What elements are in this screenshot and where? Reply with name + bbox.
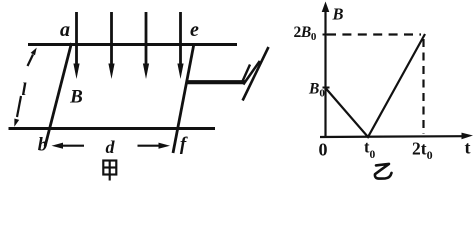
tick 2B0 [323, 34, 330, 36]
dashed vertical at 2t0 [422, 39, 424, 134]
graph B axis [322, 2, 330, 138]
field arrow 3 [143, 12, 149, 79]
svg-text:a: a [60, 19, 70, 41]
graph line B(t) [326, 34, 426, 137]
thick wire to external circuit [187, 80, 246, 84]
graph t axis [320, 133, 473, 140]
field arrow 2 [108, 12, 114, 79]
dimension l lower arrow [14, 96, 21, 127]
svg-text:t: t [465, 138, 471, 158]
field arrow 4 [177, 12, 183, 79]
break slash middle [243, 61, 259, 85]
top rail (wire) [28, 43, 237, 46]
dimension d right arrow [138, 143, 171, 149]
conducting bar ab [45, 43, 72, 147]
caption 乙 (drawn glyph) [375, 164, 392, 179]
svg-text:B: B [332, 5, 344, 24]
conducting bar ef [173, 44, 194, 154]
dimension l upper arrow [28, 48, 37, 66]
caption 甲 (drawn glyph) [103, 161, 116, 181]
field arrow 1 [73, 12, 79, 79]
svg-text:d: d [106, 137, 116, 157]
svg-text:b: b [38, 135, 48, 156]
break slash short [243, 65, 250, 82]
bottom rail (wire) [9, 127, 216, 130]
dashed level 2B0 [327, 33, 421, 35]
svg-text:B: B [69, 87, 83, 108]
break slash long [243, 47, 269, 101]
svg-text:0: 0 [319, 140, 328, 160]
svg-text:e: e [190, 19, 199, 41]
svg-text:l: l [21, 79, 26, 99]
tick B0 [323, 87, 330, 89]
dimension d left arrow [52, 143, 85, 149]
